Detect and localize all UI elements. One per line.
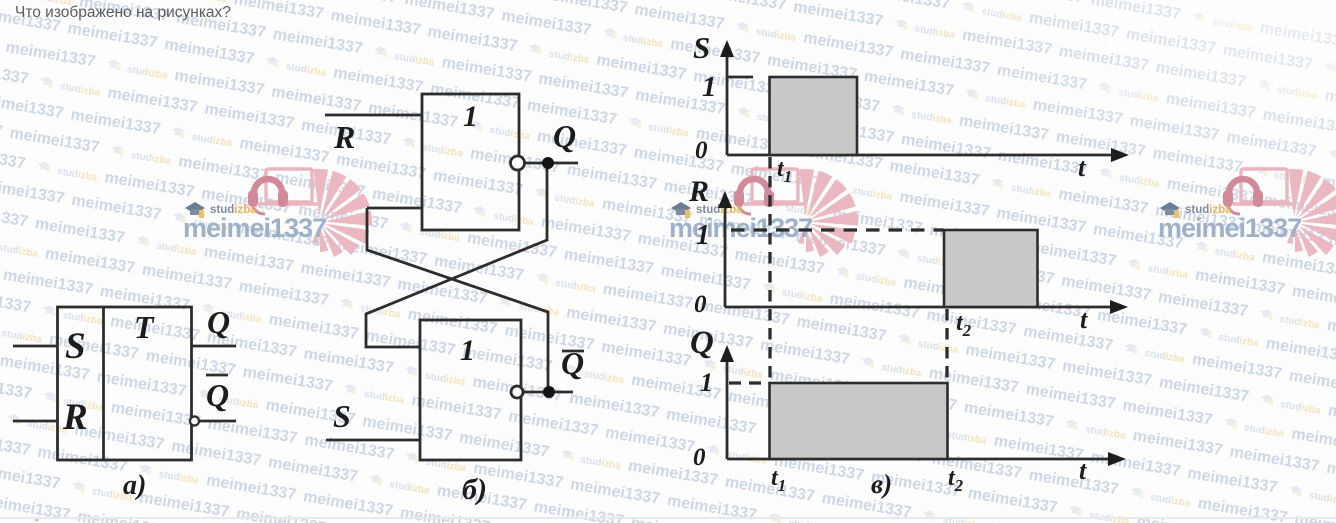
svg-text:1: 1 [702, 71, 717, 103]
svg-text:t: t [1080, 305, 1088, 334]
svg-text:t: t [1079, 456, 1087, 485]
svg-text:t2: t2 [956, 310, 972, 340]
svg-text:t: t [1078, 153, 1086, 182]
svg-text:0: 0 [694, 291, 707, 318]
svg-text:R: R [62, 397, 88, 438]
svg-text:t1: t1 [771, 465, 786, 495]
svg-text:T: T [134, 309, 155, 345]
svg-text:R: R [333, 119, 355, 155]
svg-text:Q: Q [553, 118, 576, 154]
svg-text:Q: Q [206, 377, 229, 413]
svg-text:в): в) [871, 469, 892, 499]
svg-text:t1: t1 [777, 156, 792, 186]
svg-text:Q: Q [207, 304, 230, 340]
svg-text:б): б) [462, 473, 487, 506]
svg-text:Q: Q [561, 345, 584, 381]
svg-text:S: S [65, 326, 86, 367]
svg-text:0: 0 [695, 137, 708, 164]
svg-text:а): а) [123, 470, 146, 501]
svg-text:S: S [333, 398, 351, 434]
svg-text:R: R [688, 175, 709, 208]
svg-text:Q: Q [690, 325, 714, 361]
svg-text:1: 1 [463, 100, 478, 133]
svg-text:S: S [693, 30, 710, 65]
svg-text:t2: t2 [948, 465, 964, 495]
svg-text:1: 1 [460, 334, 475, 367]
svg-text:1: 1 [696, 220, 710, 251]
svg-text:0: 0 [693, 444, 706, 471]
svg-text:1: 1 [700, 368, 713, 397]
